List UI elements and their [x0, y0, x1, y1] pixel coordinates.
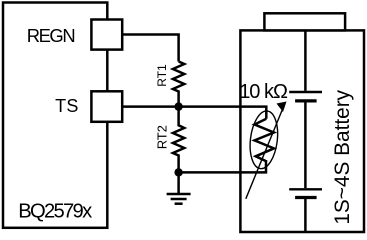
pin REGN box	[91, 20, 122, 50]
wire GND node to thermistor bottom	[179, 160, 266, 172]
svg-text:TS: TS	[55, 96, 79, 116]
battery cell 2	[289, 188, 322, 190]
IC U1 BQ2579x body	[3, 3, 107, 228]
junction node TS dot	[174, 102, 182, 110]
pin TS box	[91, 91, 122, 122]
resistor RT1	[173, 62, 184, 104]
svg-text:BQ2579x: BQ2579x	[18, 201, 92, 223]
wire REGN to RT1 top	[122, 35, 178, 62]
battery cell 1	[289, 91, 322, 93]
wire TS node	[122, 107, 266, 119]
battery internal wire top	[304, 30, 307, 90]
svg-text:RT2: RT2	[155, 125, 170, 149]
thermistor arrowhead	[277, 102, 287, 113]
ground	[167, 172, 191, 203]
battery internal wire middle	[304, 103, 307, 189]
thermistor RT zigzag	[255, 119, 274, 161]
junction node GND dot	[174, 168, 182, 176]
thermistor arrow line	[246, 108, 283, 199]
battery box 1S~4S Battery	[240, 30, 364, 232]
battery pack connector box	[264, 13, 345, 30]
battery internal wire bottom	[304, 199, 307, 231]
svg-text:RT1: RT1	[155, 64, 169, 87]
svg-text:1S~4S Battery: 1S~4S Battery	[331, 89, 354, 224]
thermistor ellipse	[247, 109, 281, 170]
resistor RT2	[173, 107, 184, 173]
svg-text:REGN: REGN	[27, 25, 75, 46]
svg-text:10 kΩ: 10 kΩ	[239, 81, 288, 103]
